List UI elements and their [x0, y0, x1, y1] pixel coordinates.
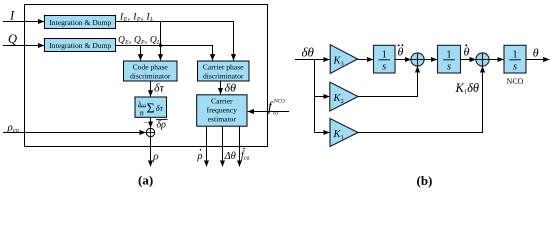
junction dot at (161,45)	[159, 44, 162, 47]
summing node 2 (b)	[476, 53, 489, 66]
svg-text:−: −	[143, 118, 148, 127]
wire sum to node	[150, 117, 152, 127]
svg-text:δτ: δτ	[156, 103, 164, 113]
svg-text:θ: θ	[464, 45, 470, 59]
svg-text:1: 1	[446, 50, 451, 61]
integrator 1/s (2)	[438, 45, 461, 73]
svg-text:K1δθ: K1δθ	[455, 81, 480, 96]
net label theta-double-dot	[398, 44, 404, 58]
wire I branch down to code phase discriminator	[160, 22, 162, 61]
outer enclosure box of diagram (a)	[25, 5, 268, 147]
svg-text:δθ: δθ	[302, 45, 315, 60]
block carrier frequency estimator	[197, 95, 247, 126]
wire delta-theta	[220, 81, 222, 94]
wire rho-dot output	[206, 126, 208, 166]
block carrier phase discriminator	[198, 61, 250, 81]
svg-text:Carrier phase: Carrier phase	[203, 62, 244, 71]
integrator 1/s (1)	[374, 45, 396, 73]
svg-text:I: I	[9, 9, 15, 23]
block code phase discriminator	[124, 61, 178, 81]
net label delta-rho-bar	[156, 120, 168, 131]
svg-text:Integration & Dump: Integration & Dump	[49, 18, 111, 27]
svg-text:Integration & Dump: Integration & Dump	[49, 41, 111, 50]
wire f_ca^NCO input	[248, 111, 289, 113]
wire f-dot_ca output	[239, 126, 241, 166]
svg-text:Σ: Σ	[147, 102, 155, 117]
gain K1	[330, 119, 358, 147]
wire K2 feedback to summing node 1	[358, 66, 417, 96]
svg-text:frequency: frequency	[207, 106, 238, 115]
wire I input	[3, 21, 44, 23]
svg-text:δθ: δθ	[225, 81, 237, 95]
wire rho_co input	[3, 132, 146, 134]
svg-text:s: s	[382, 62, 386, 73]
svg-text:Q: Q	[8, 32, 17, 46]
wire Q input	[3, 45, 44, 47]
net label theta-dot	[464, 44, 470, 58]
wire branch down to K2 and K1	[314, 60, 316, 133]
svg-text:Δθ: Δθ	[224, 151, 236, 162]
net label f-dot_ca	[241, 148, 249, 162]
wire Q branch down to code phase discriminator	[140, 46, 142, 61]
wire delta-theta output	[222, 126, 224, 166]
svg-text:s: s	[513, 62, 517, 73]
block Integration & Dump (I)	[45, 16, 116, 29]
svg-text:θ: θ	[533, 46, 539, 60]
svg-text:discriminator: discriminator	[203, 71, 244, 80]
svg-text:(a): (a)	[138, 173, 153, 188]
svg-text:ρ: ρ	[197, 151, 203, 162]
net label rho-dot	[197, 149, 203, 162]
svg-text:Code phase: Code phase	[133, 62, 169, 71]
wire delta-tau	[150, 81, 152, 96]
svg-text:estimator: estimator	[208, 115, 237, 124]
wire theta output	[526, 59, 549, 61]
svg-text:QE, QP, QL: QE, QP, QL	[118, 36, 160, 47]
svg-text:ca: ca	[273, 110, 278, 116]
gain K3	[330, 45, 357, 74]
wire integrator2 to summing node 2	[461, 59, 476, 61]
svg-text:fca: fca	[241, 150, 249, 162]
wire summing node2 to NCO integrator	[489, 59, 504, 61]
gain K2	[330, 82, 358, 111]
block Integration & Dump (Q)	[45, 39, 116, 52]
svg-text:1: 1	[382, 50, 387, 61]
svg-text:(b): (b)	[417, 173, 433, 188]
svg-text:n: n	[140, 108, 144, 117]
net label f_ca^NCO	[268, 99, 285, 117]
svg-text:s: s	[447, 62, 451, 73]
wire branch into K1	[315, 132, 330, 134]
integrator 1/s NCO	[504, 45, 526, 73]
svg-text:δρ: δρ	[157, 120, 167, 131]
wire K3 to integrator 1	[358, 59, 374, 61]
svg-text:ρ: ρ	[152, 151, 158, 163]
svg-text:δτ: δτ	[154, 81, 165, 95]
svg-text:NCO: NCO	[507, 77, 524, 86]
block sum (lambda_co/n * Sigma delta-tau)	[135, 97, 167, 117]
wire rho output	[150, 137, 152, 167]
svg-text:Carrier: Carrier	[211, 97, 233, 106]
wire branch into K2	[315, 96, 330, 98]
wire Q output to carrier phase discriminator	[116, 46, 213, 61]
wire delta-theta input (b)	[295, 59, 330, 61]
svg-text:θ: θ	[398, 45, 404, 59]
wire I output to carrier phase discriminator	[116, 22, 234, 61]
wire integrator1 to summing node 1	[395, 59, 411, 61]
wire summing node1 to integrator 2	[424, 59, 437, 61]
svg-text:discriminator: discriminator	[130, 71, 171, 80]
summing node (a)	[146, 128, 154, 136]
wire K1 feedback to summing node 2	[358, 66, 483, 132]
summing node 1 (b)	[411, 53, 424, 66]
svg-text:NCO: NCO	[274, 99, 285, 105]
svg-text:1: 1	[512, 50, 517, 61]
